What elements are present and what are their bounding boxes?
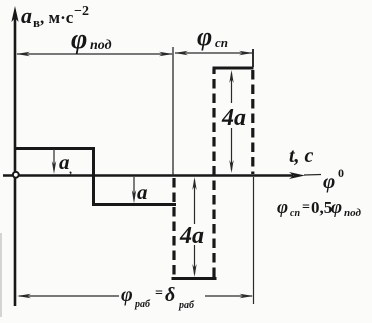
vertical axis arrowhead: [11, 6, 18, 22]
dimension boundary line at x=173: [172, 47, 174, 176]
svg-text:a: a: [21, 3, 32, 28]
4a arrow in negative pulse: [194, 180, 196, 274]
svg-text:=: =: [155, 286, 163, 301]
curve: negative step -a: [92, 203, 176, 206]
horizontal axis t: [3, 174, 293, 177]
svg-text:, м·с: , м·с: [40, 8, 74, 27]
svg-text:φ: φ: [197, 22, 212, 51]
svg-text:a: a: [59, 150, 70, 174]
svg-text:−2: −2: [74, 4, 89, 19]
curve: dashed left side of -4a pulse: [172, 178, 175, 277]
svg-text:сп: сп: [215, 35, 228, 50]
bottom dimension line phi_rab: [19, 295, 119, 297]
curve: step down edge: [92, 147, 95, 205]
svg-text:a: a: [137, 180, 148, 204]
svg-text:φ: φ: [323, 169, 335, 193]
dimension line phi_sp: [175, 52, 252, 54]
svg-text:φ: φ: [277, 197, 288, 218]
origin circle: [13, 172, 19, 178]
svg-text:раб: раб: [178, 300, 195, 311]
curve: dashed riser from -4a to +4a: [212, 69, 215, 277]
svg-text:0,5: 0,5: [311, 198, 332, 217]
svg-text:,: ,: [69, 162, 72, 176]
svg-text:φ: φ: [331, 197, 342, 218]
curve: top of +4a pulse: [213, 67, 254, 70]
svg-text:под: под: [90, 38, 112, 53]
svg-text:4a: 4a: [221, 105, 246, 131]
vertical axis a_v: [14, 16, 17, 306]
svg-text:под: под: [344, 207, 361, 219]
curve: dashed right side of +4a pulse: [251, 70, 254, 174]
scan smudge left edge: [0, 233, 2, 317]
svg-text:φ: φ: [71, 24, 87, 55]
dimension line phi_pod: [17, 53, 172, 55]
svg-text:раб: раб: [134, 299, 151, 310]
svg-text:t, c: t, c: [289, 145, 314, 167]
label 4a negative: [178, 224, 206, 245]
horizontal axis arrowhead: [289, 172, 305, 179]
label 4a positive: [220, 103, 248, 128]
svg-text:φ: φ: [121, 284, 133, 306]
tick at right end of phi_sp: [252, 49, 254, 67]
svg-text:0: 0: [338, 166, 344, 180]
svg-text:сп: сп: [290, 208, 300, 219]
curve: first positive step a1: [15, 147, 94, 150]
svg-text:δ: δ: [165, 284, 175, 306]
a1 value arrow: [53, 149, 55, 170]
svg-text:4a: 4a: [179, 223, 204, 249]
a value arrow: [133, 177, 135, 199]
curve: bottom of -4a pulse: [172, 277, 217, 280]
dimension boundary line at x=253.5: [253, 177, 255, 304]
4a arrow in positive pulse: [231, 73, 233, 170]
svg-text:в: в: [33, 15, 40, 30]
axis tail to phi label: [304, 174, 321, 177]
svg-text:=: =: [302, 200, 310, 215]
